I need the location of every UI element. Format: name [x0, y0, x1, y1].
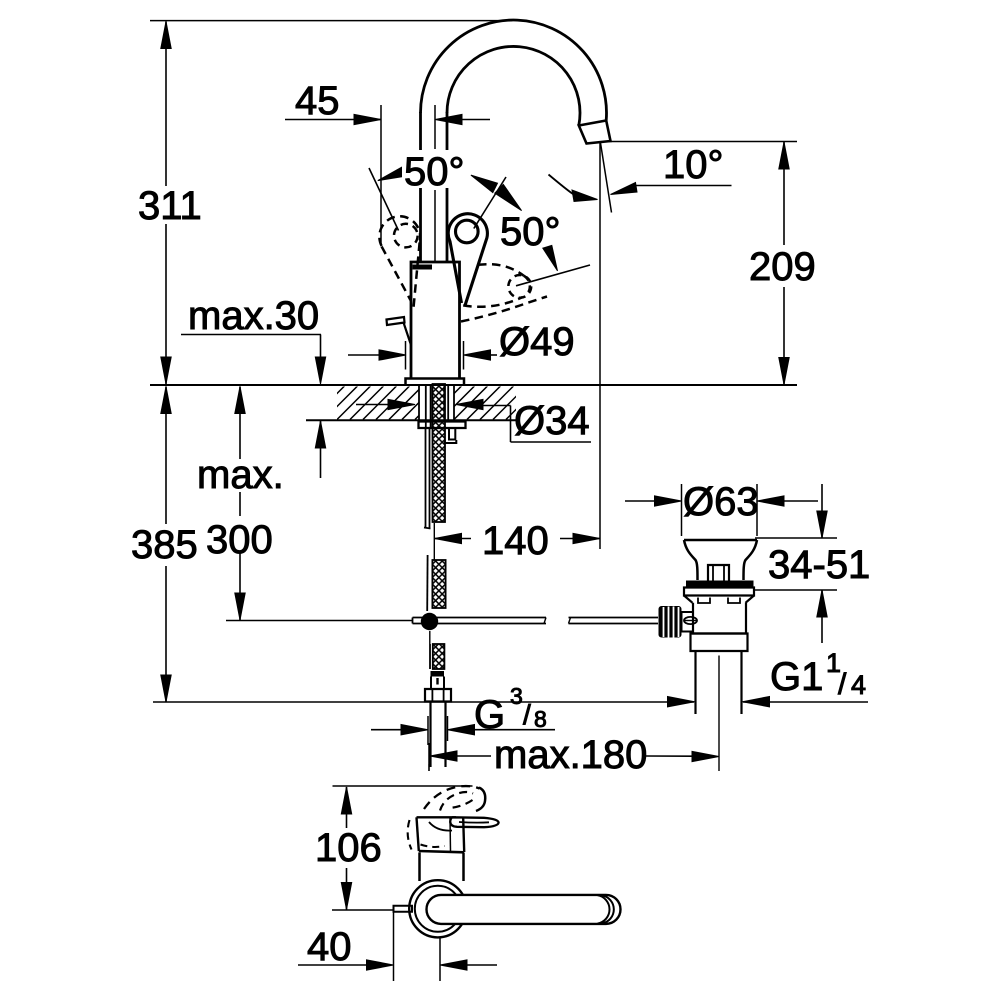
label 311 [138, 184, 202, 228]
dashed handle left outer [379, 216, 420, 246]
label max.180 [494, 733, 647, 777]
top view lower reference line [332, 909, 394, 911]
svg-text:8: 8 [534, 706, 547, 732]
svg-text:Ø34: Ø34 [514, 399, 590, 443]
lever tip curl [476, 788, 485, 812]
base plate [406, 379, 465, 385]
svg-text:209: 209 [749, 245, 816, 289]
dimension 140 line [435, 533, 601, 543]
spout tip reference line [603, 141, 797, 143]
label 140 [482, 519, 549, 563]
deck hatching [298, 386, 592, 420]
45 extension line left [380, 105, 382, 245]
drain lower band [691, 634, 748, 652]
spout arch inner [447, 46, 580, 125]
top view body column [420, 853, 464, 882]
label 209 [749, 245, 816, 289]
pull-rod knob side [387, 317, 412, 345]
angle arrow right [543, 245, 558, 270]
top view pull-rod knob [394, 906, 413, 912]
label diam63 [683, 480, 759, 524]
mounting flange [419, 422, 466, 429]
dashed handle right outer [461, 264, 547, 321]
dashed raised lever outer [424, 786, 480, 809]
handle block dashed hidden [408, 820, 445, 850]
angle ray right upper [474, 177, 506, 229]
svg-text:300: 300 [206, 518, 273, 562]
drain locknut [684, 588, 754, 603]
svg-text:385: 385 [131, 523, 198, 567]
top view body inner circle [415, 886, 461, 932]
flex hose braided upper [433, 384, 446, 522]
extension line top reference (spout apex level) [150, 20, 512, 22]
label 385 [131, 523, 198, 567]
label G1 1/4 [770, 648, 866, 701]
dimension 311 line [161, 22, 171, 385]
hose connector [425, 671, 451, 702]
svg-text:max.30: max.30 [188, 294, 319, 338]
svg-text:max.: max. [197, 453, 284, 497]
rod pivot pointer [684, 617, 697, 624]
10deg right arrow line [611, 183, 732, 195]
angle arrow bowtie [471, 175, 522, 211]
svg-text:G: G [474, 693, 505, 737]
dimension diam49 [348, 341, 497, 370]
dimension 209 line [779, 142, 789, 385]
top view body outer circle [409, 880, 466, 937]
drain seal washer [686, 581, 754, 588]
label max180 top arrow extension [428, 764, 430, 771]
angle ray left [369, 168, 399, 231]
svg-text:/: / [838, 668, 847, 701]
spout right leg [446, 112, 449, 262]
label diam49 [499, 320, 575, 364]
label max. [197, 453, 284, 497]
label diam34 [514, 399, 590, 443]
dimension 385 line [161, 387, 171, 703]
deck hole edges [419, 385, 454, 420]
drain body [693, 598, 746, 634]
top view upper reference line [333, 785, 473, 787]
svg-text:140: 140 [482, 519, 549, 563]
dashed handle right inner [508, 275, 531, 298]
handle loop inner ring [456, 220, 479, 243]
spout left leg [419, 112, 422, 262]
label 50deg right [500, 210, 561, 254]
bottom reference and G1 1/4 dimension line [153, 697, 868, 707]
dimension diam34 [356, 399, 483, 409]
supply pipe G3/8 [431, 702, 446, 767]
dimension max300 line [235, 387, 245, 621]
top view spout capsule [427, 895, 621, 924]
label 45 [295, 79, 340, 123]
label 40 [307, 925, 352, 969]
angle leader right [516, 265, 590, 286]
svg-text:34-51: 34-51 [768, 543, 870, 587]
dimension diam63 [625, 484, 818, 536]
hose centerline [433, 523, 435, 560]
dimension G3/8 [371, 716, 555, 745]
svg-text:106: 106 [315, 826, 382, 870]
deck surface line [150, 384, 797, 386]
max300 bottom reference line [226, 620, 413, 622]
handle loop outer [448, 214, 487, 306]
svg-text:45: 45 [295, 79, 340, 123]
dashed handle left inner [394, 224, 418, 248]
svg-text:311: 311 [138, 184, 202, 228]
drain centerline [718, 656, 720, 772]
dimension 34-51 [753, 484, 837, 643]
10deg vertical extension [599, 143, 601, 549]
dimension 106 [341, 787, 351, 910]
faucet body [411, 262, 460, 379]
clamp link [682, 612, 694, 632]
flex hose braided mid [427, 555, 445, 611]
flex hose braided lower [430, 631, 445, 669]
label 34-51 [768, 543, 870, 587]
label max.30 [188, 294, 319, 338]
diam34 callout [483, 406, 591, 443]
svg-text:Ø63: Ø63 [683, 480, 759, 524]
lever flat grip [450, 817, 498, 827]
handle block top view [417, 817, 465, 852]
label 10deg [663, 143, 724, 187]
dashed raised lever inner [440, 792, 473, 811]
drain tailpiece window [708, 565, 729, 581]
label 106 [315, 826, 382, 870]
svg-text:Ø49: Ø49 [499, 320, 575, 364]
label 50deg left [402, 150, 472, 194]
pull rod [413, 618, 659, 624]
svg-text:40: 40 [307, 925, 352, 969]
svg-text:max.180: max.180 [494, 733, 647, 777]
svg-text:4: 4 [851, 670, 866, 700]
svg-text:10°: 10° [663, 143, 724, 187]
dimension 40 [298, 912, 497, 981]
drain clamp knob [659, 606, 682, 638]
angle arrow left [378, 167, 405, 180]
spout tip aerator [579, 121, 611, 144]
mounting bracket tab [445, 428, 457, 443]
drain tailpipe [696, 651, 742, 714]
drain funnel [684, 540, 757, 580]
ball joint [421, 613, 438, 630]
svg-text:/: / [523, 699, 531, 730]
max30 leader [181, 335, 326, 479]
label 300 [206, 518, 273, 562]
dimension max180 [429, 743, 719, 771]
svg-text:G1: G1 [770, 655, 823, 699]
dimension 45 line [285, 114, 490, 124]
dashed handle left tails [382, 243, 420, 312]
threaded shank walls [426, 385, 448, 427]
spout arch outer [421, 20, 607, 120]
deck underside line [306, 419, 516, 421]
flex hose smooth [424, 428, 431, 529]
svg-text:3: 3 [510, 683, 523, 709]
svg-text:50°: 50° [404, 150, 465, 194]
10deg tilted line [601, 143, 612, 213]
label G3/8 [474, 683, 547, 737]
45 extension line right / body centerline [434, 105, 436, 262]
10deg arc arrow [549, 175, 598, 202]
body top tick [413, 265, 433, 270]
